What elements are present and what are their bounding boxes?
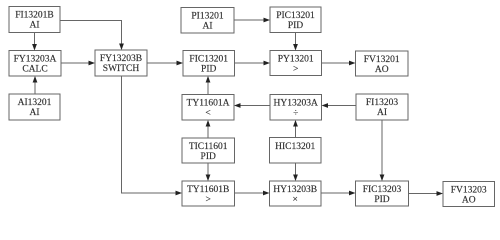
svg-text:TY11601A: TY11601A: [187, 99, 230, 109]
svg-text:CALC: CALC: [22, 65, 47, 75]
block TIC11601 PID: [182, 138, 235, 163]
block FY13203B SWITCH: [95, 50, 147, 76]
wire HIC13201 to HY13203B: [293, 163, 298, 181]
wire FI13203 to HY13203A: [322, 103, 357, 108]
wire FI13203 to FIC13203: [380, 120, 385, 181]
svg-text:>: >: [206, 195, 211, 205]
wire FI13201B to FY13203B: [60, 21, 124, 51]
block FI13201B AI: [9, 7, 60, 33]
block FI13203 AI: [356, 94, 408, 120]
block HY13203B multiply: [270, 181, 322, 206]
svg-text:SWITCH: SWITCH: [103, 64, 140, 74]
svg-text:PI13201: PI13201: [191, 12, 223, 22]
svg-text:HIC13201: HIC13201: [275, 142, 315, 152]
wire TIC11601 to TY11601A: [206, 120, 211, 138]
svg-text:FY13203A: FY13203A: [14, 55, 57, 65]
svg-text:PIC13201: PIC13201: [276, 11, 315, 21]
svg-text:FY13203B: FY13203B: [100, 54, 142, 64]
block FIC13203 PID: [356, 181, 409, 206]
block FIC13201 PID: [183, 51, 235, 77]
svg-text:PID: PID: [201, 65, 216, 75]
svg-text:TY11601B: TY11601B: [187, 185, 229, 195]
block TY11601B >: [182, 181, 235, 206]
block HIC13201: [270, 138, 322, 164]
block FV13201 AO: [356, 51, 409, 76]
svg-text:AO: AO: [462, 196, 476, 206]
svg-text:FI13203: FI13203: [366, 98, 398, 108]
block AI13201 AI: [9, 94, 60, 120]
block PI13201 AI: [181, 8, 234, 34]
svg-text:AO: AO: [375, 65, 389, 75]
svg-text:FV13203: FV13203: [451, 186, 487, 196]
svg-text:HY13203B: HY13203B: [273, 185, 317, 195]
wire TY11601A to FIC13201: [206, 76, 211, 95]
svg-text:<: <: [205, 109, 210, 119]
svg-text:AI: AI: [202, 22, 212, 32]
wire HY13203A to TY11601A: [234, 103, 270, 108]
svg-text:AI: AI: [29, 108, 39, 118]
svg-text:HY13203A: HY13203A: [274, 99, 318, 109]
svg-text:÷: ÷: [293, 109, 298, 119]
svg-text:TIC11601: TIC11601: [189, 142, 228, 152]
wire PIC13201 to PY13201: [293, 33, 298, 51]
svg-text:FI13201B: FI13201B: [15, 11, 54, 21]
svg-text:PY13201: PY13201: [278, 55, 314, 65]
wire TY11601B to HY13203B: [235, 191, 270, 196]
svg-text:×: ×: [293, 195, 298, 205]
svg-text:>: >: [293, 65, 298, 75]
wire FY13203A to FY13203B: [61, 61, 95, 66]
wire FY13203B to FIC13201: [147, 61, 183, 66]
svg-text:PID: PID: [374, 195, 389, 205]
svg-text:FIC13203: FIC13203: [363, 185, 402, 195]
wire AI13201 to FY13203A: [33, 76, 38, 94]
wire PI13201 to PIC13201: [234, 18, 270, 23]
wire FY13203B to TY11601B: [122, 76, 183, 195]
wire FIC13203 to FV13203: [409, 191, 444, 196]
wire FIC13201 to PY13201: [235, 61, 271, 66]
svg-text:AI: AI: [29, 21, 39, 31]
svg-text:AI: AI: [377, 108, 387, 118]
block FV13203 AO: [443, 182, 495, 207]
wire FI13201B to FY13203A: [32, 33, 37, 51]
svg-text:AI13201: AI13201: [18, 98, 52, 108]
svg-text:FV13201: FV13201: [364, 55, 400, 65]
svg-text:FIC13201: FIC13201: [189, 55, 228, 65]
block TY11601A <: [182, 95, 234, 121]
wire PY13201 to FV13201: [322, 61, 356, 66]
block FY13203A CALC: [9, 51, 61, 77]
wire HY13203B to FIC13203: [321, 191, 356, 196]
block PIC13201 PID: [270, 7, 321, 33]
wire TIC11601 to TY11601B: [206, 163, 211, 181]
svg-text:PID: PID: [201, 152, 216, 162]
block HY13203A divide: [270, 95, 322, 121]
block PY13201 >: [270, 51, 322, 76]
wire HIC13201 to HY13203A: [293, 120, 298, 138]
svg-text:PID: PID: [288, 21, 303, 31]
